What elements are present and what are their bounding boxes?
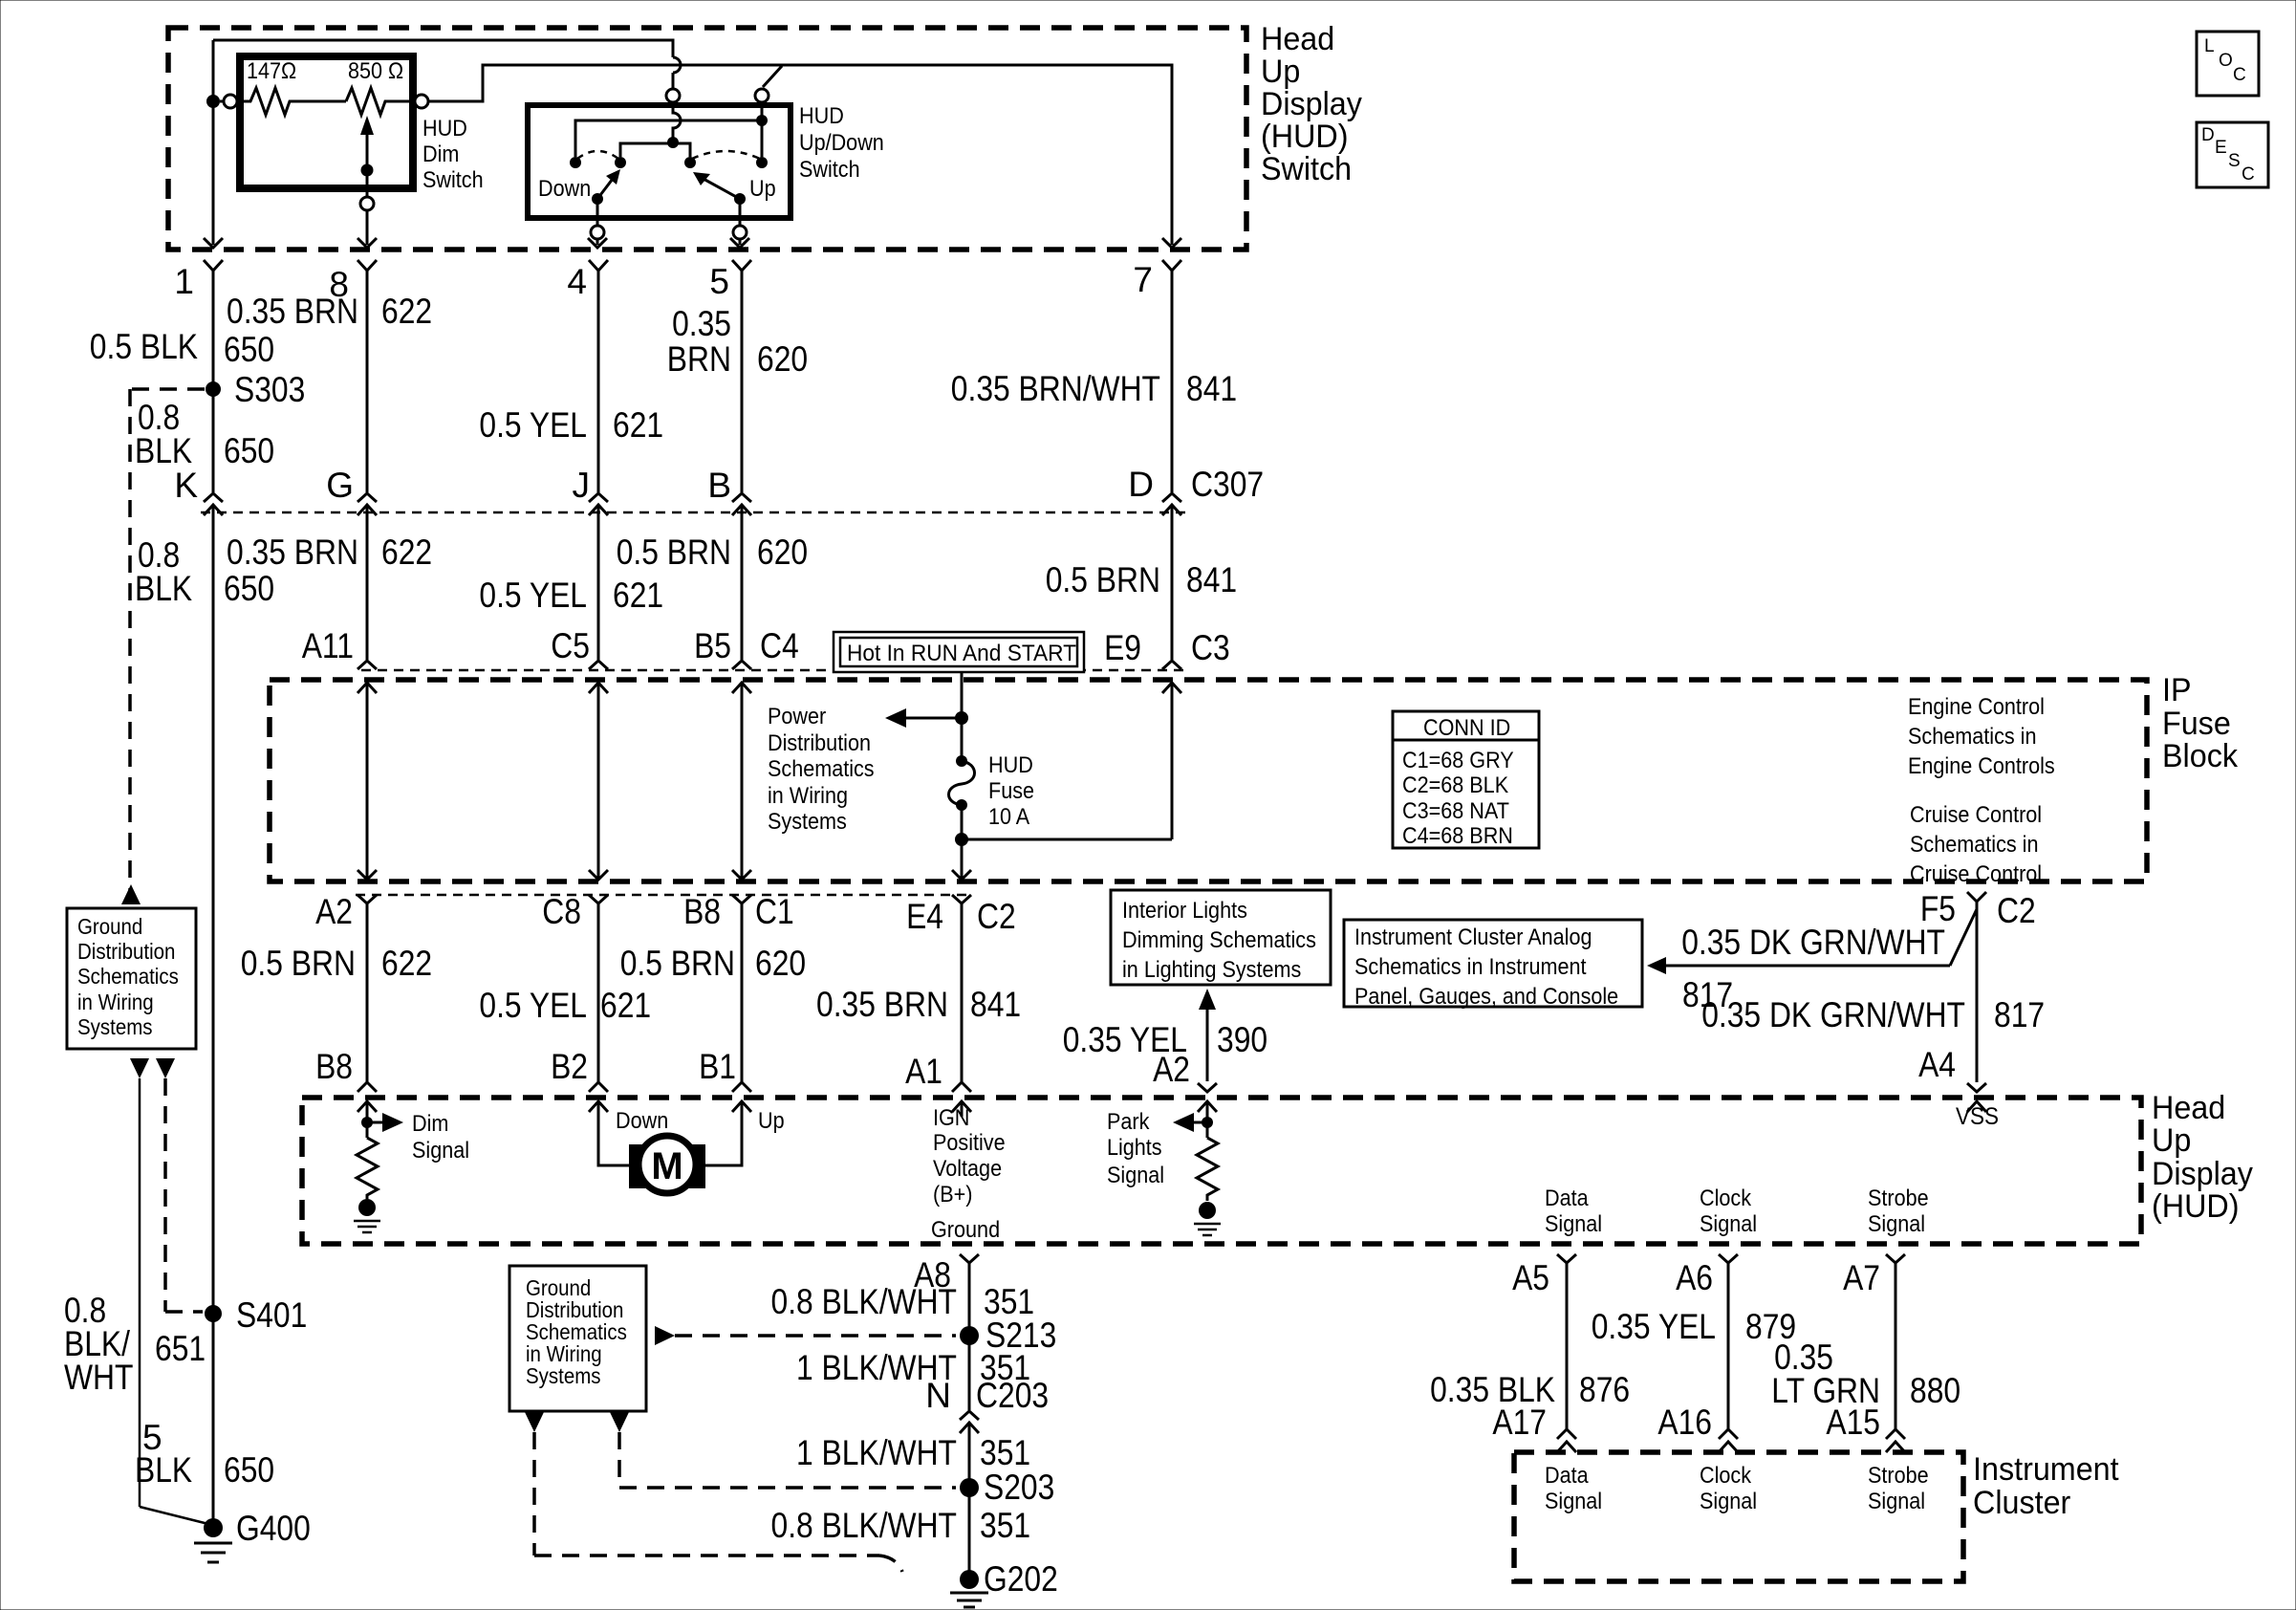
svg-text:Switch: Switch bbox=[422, 167, 484, 193]
svg-text:Instrument Cluster Analog: Instrument Cluster Analog bbox=[1354, 925, 1592, 950]
svg-text:650: 650 bbox=[224, 569, 274, 608]
svg-text:C3: C3 bbox=[1191, 628, 1230, 667]
svg-text:K: K bbox=[174, 466, 198, 505]
svg-text:C4: C4 bbox=[760, 626, 799, 665]
wire A: top wire from pin1 column to up/down switch bbox=[213, 40, 673, 57]
svg-text:Ground: Ground bbox=[931, 1217, 1000, 1243]
svg-text:B8: B8 bbox=[315, 1047, 353, 1086]
label Instrument Cluster bbox=[1973, 1451, 2119, 1521]
label 0.35 BRN 622 second bbox=[227, 533, 432, 572]
row3 wire end forks bbox=[357, 661, 1181, 669]
svg-text:Schematics: Schematics bbox=[77, 964, 179, 989]
label 5 BLK 650 bbox=[135, 1418, 274, 1490]
dim signal wire stub bbox=[366, 1101, 369, 1138]
park junction dot bbox=[1202, 1117, 1213, 1128]
label Cruise Control Schematics in Cruise Control bbox=[1910, 802, 2042, 887]
label 0.5 BRN 620 third bbox=[620, 944, 806, 983]
svg-text:0.5 YEL: 0.5 YEL bbox=[479, 576, 587, 615]
svg-text:850 Ω: 850 Ω bbox=[348, 58, 403, 84]
LOC box bbox=[2197, 32, 2259, 96]
svg-text:C2=68 BLK: C2=68 BLK bbox=[1402, 772, 1508, 798]
terminal circle pin4 bbox=[591, 226, 604, 239]
label 0.35 YEL 879 bbox=[1592, 1307, 1796, 1346]
wire A6 fork below HUD bbox=[1719, 1254, 1738, 1452]
svg-text:0.5 BLK: 0.5 BLK bbox=[90, 327, 198, 366]
wiper wire to terminal circle bbox=[366, 170, 369, 197]
label Strobe Signal hud bbox=[1868, 1186, 1929, 1237]
dashed contact arc up bbox=[692, 151, 760, 159]
terminal circle up-switch common bbox=[755, 89, 769, 102]
svg-text:Display: Display bbox=[2152, 1156, 2253, 1192]
svg-text:Signal: Signal bbox=[1545, 1489, 1602, 1514]
svg-text:622: 622 bbox=[381, 533, 432, 572]
arrow up into ground distribution box bbox=[121, 884, 141, 904]
wire A5 fork below HUD bbox=[1557, 1254, 1576, 1452]
resistor 147 ohm bbox=[240, 58, 346, 115]
svg-text:E: E bbox=[2215, 138, 2227, 158]
svg-text:in Wiring: in Wiring bbox=[768, 783, 848, 809]
svg-text:A5: A5 bbox=[1512, 1258, 1549, 1297]
svg-text:0.5 BRN: 0.5 BRN bbox=[617, 533, 731, 572]
svg-text:D: D bbox=[1128, 465, 1154, 504]
svg-text:Switch: Switch bbox=[1261, 151, 1352, 187]
label N C203 bbox=[925, 1376, 1049, 1415]
svg-text:C: C bbox=[2242, 164, 2255, 185]
svg-text:Panel, Gauges, and Console: Panel, Gauges, and Console bbox=[1354, 984, 1618, 1010]
svg-text:0.5 YEL: 0.5 YEL bbox=[479, 986, 587, 1025]
label 1 BLK/WHT 351 second bbox=[796, 1348, 1030, 1387]
svg-text:A4: A4 bbox=[1918, 1045, 1956, 1084]
wire 622 row4 to HUD bbox=[366, 903, 369, 1082]
arrows down from ground distribution box bbox=[130, 1058, 149, 1078]
potentiometer wiper arrow bbox=[360, 116, 374, 170]
label 0.5 YEL 621 second bbox=[479, 576, 663, 615]
svg-text:Up: Up bbox=[758, 1108, 785, 1134]
ground distribution box bottom bbox=[509, 1266, 646, 1411]
svg-text:Signal: Signal bbox=[1107, 1163, 1164, 1188]
label Head Up Display (HUD) Switch bbox=[1261, 21, 1362, 187]
svg-text:A15: A15 bbox=[1826, 1403, 1880, 1442]
wire down input to motor bbox=[598, 1101, 629, 1165]
svg-text:650: 650 bbox=[224, 1450, 274, 1490]
svg-text:0.35 BRN: 0.35 BRN bbox=[816, 985, 948, 1024]
terminal circle left of HUD dim switch bbox=[224, 95, 237, 108]
resistor 850 ohm bbox=[346, 58, 413, 115]
dashed ref line to G202 bbox=[534, 1432, 902, 1572]
svg-text:351: 351 bbox=[980, 1433, 1030, 1472]
label Data Signal ic bbox=[1545, 1463, 1602, 1514]
junction dot L2 center bbox=[667, 137, 679, 148]
contact dot up-right bbox=[756, 157, 768, 168]
pivot dot down bbox=[592, 193, 603, 205]
svg-text:1: 1 bbox=[174, 262, 194, 301]
ground dot dim bbox=[358, 1199, 376, 1216]
svg-text:Signal: Signal bbox=[1868, 1489, 1925, 1514]
row4 bottom fork glyphs bbox=[357, 1082, 971, 1092]
svg-text:O: O bbox=[2219, 51, 2233, 71]
label Park Lights Signal bbox=[1107, 1109, 1164, 1188]
label 0.8 BLK 650 bbox=[135, 398, 274, 470]
terminal circle below dim switch bbox=[360, 197, 374, 210]
svg-text:IP: IP bbox=[2162, 672, 2192, 708]
svg-text:Clock: Clock bbox=[1700, 1463, 1752, 1489]
svg-text:B1: B1 bbox=[699, 1047, 736, 1086]
svg-text:C2: C2 bbox=[977, 897, 1016, 936]
svg-text:L: L bbox=[2204, 36, 2215, 56]
wire: pin 1 vertical bbox=[212, 40, 215, 245]
splice S401 bbox=[205, 1295, 307, 1335]
label 0.8 BLK 650 second bbox=[135, 535, 274, 608]
svg-text:Cruise Control: Cruise Control bbox=[1910, 802, 2042, 828]
splice S203 bbox=[960, 1468, 1054, 1507]
label 0.8 BLK/WHT 351 fourth bbox=[771, 1506, 1031, 1545]
svg-text:HUD: HUD bbox=[422, 116, 467, 141]
connector F5 C2 fork bbox=[1967, 892, 1986, 902]
arrow fuse wire exits IP block bottom bbox=[952, 870, 971, 880]
svg-text:IGN: IGN bbox=[933, 1105, 969, 1131]
svg-text:Display: Display bbox=[1261, 86, 1362, 122]
svg-text:0.35 BRN/WHT: 0.35 BRN/WHT bbox=[951, 369, 1160, 408]
svg-text:S401: S401 bbox=[236, 1295, 307, 1335]
svg-text:622: 622 bbox=[381, 292, 432, 331]
Instrument Cluster dashed box bbox=[1514, 1452, 1963, 1581]
wire 621 below C307 bbox=[597, 505, 600, 660]
HUD Dim Switch box bbox=[240, 56, 413, 188]
svg-text:G: G bbox=[326, 466, 354, 505]
svg-text:A16: A16 bbox=[1657, 1403, 1712, 1442]
svg-text:BLK: BLK bbox=[135, 569, 192, 608]
svg-text:WHT: WHT bbox=[64, 1358, 134, 1397]
svg-text:Up/Down: Up/Down bbox=[799, 130, 884, 156]
wire 651 solid to G400 bbox=[140, 1078, 208, 1524]
splice S303 bbox=[206, 370, 305, 409]
label 0.5 BRN 620 second bbox=[617, 533, 808, 572]
svg-text:5: 5 bbox=[709, 262, 729, 301]
svg-text:Up: Up bbox=[1261, 54, 1300, 90]
svg-text:351: 351 bbox=[980, 1506, 1030, 1545]
contact dot down-right bbox=[615, 157, 626, 168]
svg-text:A11: A11 bbox=[302, 626, 354, 665]
arrows down from bottom ground box bbox=[525, 1412, 544, 1432]
junction dot power distribution tap bbox=[955, 711, 968, 725]
fuse HUD Fuse 10 A bbox=[949, 752, 1035, 830]
svg-text:621: 621 bbox=[600, 986, 651, 1025]
label 0.5 BRN 622 third bbox=[241, 944, 432, 983]
wire 622 through IP block bbox=[357, 683, 377, 880]
svg-text:F5: F5 bbox=[1920, 889, 1956, 928]
svg-text:Signal: Signal bbox=[412, 1138, 469, 1164]
pivot dot up bbox=[734, 193, 746, 205]
svg-text:Up: Up bbox=[2152, 1122, 2191, 1159]
svg-text:0.5 BRN: 0.5 BRN bbox=[1046, 560, 1160, 599]
svg-text:HUD: HUD bbox=[988, 752, 1033, 778]
svg-text:Voltage: Voltage bbox=[933, 1156, 1002, 1182]
label Data Signal hud bbox=[1545, 1186, 1602, 1237]
svg-text:E4: E4 bbox=[906, 897, 943, 936]
svg-text:C1=68 GRY: C1=68 GRY bbox=[1402, 748, 1514, 773]
svg-text:S: S bbox=[2228, 151, 2241, 171]
svg-text:390: 390 bbox=[1217, 1020, 1267, 1059]
Instrument Cluster Analog box bbox=[1344, 920, 1642, 1010]
svg-text:Head: Head bbox=[1261, 21, 1334, 57]
junction dot fuse output bbox=[955, 833, 968, 846]
svg-text:0.5 YEL: 0.5 YEL bbox=[479, 405, 587, 445]
wire 841 row4 to HUD bbox=[961, 903, 964, 1082]
svg-text:G400: G400 bbox=[236, 1509, 311, 1548]
wire L1 left contact drop bbox=[574, 120, 577, 157]
svg-text:(B+): (B+) bbox=[933, 1182, 972, 1207]
svg-text:0.35 BRN: 0.35 BRN bbox=[227, 292, 358, 331]
svg-text:Schematics in Instrument: Schematics in Instrument bbox=[1354, 954, 1587, 980]
svg-text:C3=68 NAT: C3=68 NAT bbox=[1402, 798, 1509, 824]
label Dim Signal bbox=[412, 1111, 469, 1164]
ground symbol dim bbox=[354, 1221, 380, 1232]
svg-text:Hot In RUN And START: Hot In RUN And START bbox=[847, 641, 1076, 666]
arrows at HUD switch bottom border bbox=[204, 238, 1181, 248]
svg-text:Systems: Systems bbox=[77, 1014, 153, 1039]
svg-text:S303: S303 bbox=[234, 370, 305, 409]
ground G202 bbox=[960, 1559, 1058, 1599]
svg-text:0.8 BLK/WHT: 0.8 BLK/WHT bbox=[771, 1506, 958, 1545]
svg-text:620: 620 bbox=[757, 533, 808, 572]
svg-text:A7: A7 bbox=[1843, 1258, 1880, 1297]
svg-text:Strobe: Strobe bbox=[1868, 1463, 1929, 1489]
svg-text:Engine Control: Engine Control bbox=[1908, 694, 2045, 720]
wire hop over wire B bbox=[673, 57, 681, 73]
svg-text:Cruise Control: Cruise Control bbox=[1910, 861, 2042, 887]
motor M bbox=[629, 1136, 705, 1193]
svg-text:Positive: Positive bbox=[933, 1130, 1006, 1156]
wire 817 from F5 to instrument cluster analog box bbox=[1647, 909, 1977, 974]
arrow to power distribution schematics bbox=[885, 708, 962, 728]
svg-text:0.5 BRN: 0.5 BRN bbox=[241, 944, 356, 983]
park wire fork at HUD top bbox=[1198, 1083, 1217, 1092]
svg-text:Signal: Signal bbox=[1545, 1211, 1602, 1237]
svg-text:817: 817 bbox=[1994, 995, 2045, 1034]
svg-text:Signal: Signal bbox=[1700, 1211, 1757, 1237]
dashed ref line from S303 to ground distribution bbox=[130, 389, 205, 902]
IGN wire stub bbox=[961, 1101, 964, 1117]
svg-text:841: 841 bbox=[1186, 369, 1237, 408]
wire 841 below C307 bbox=[1171, 505, 1174, 660]
CONN ID table bbox=[1393, 711, 1539, 849]
svg-text:Distribution: Distribution bbox=[77, 939, 175, 964]
svg-text:Interior Lights: Interior Lights bbox=[1122, 898, 1247, 924]
svg-text:Dim: Dim bbox=[422, 141, 459, 167]
svg-text:620: 620 bbox=[757, 339, 808, 379]
wire pin 4 stub bbox=[596, 199, 599, 245]
wire 390 up arrow to interior lights box bbox=[1199, 989, 1216, 1081]
svg-text:Cluster: Cluster bbox=[1973, 1485, 2070, 1521]
svg-text:(HUD): (HUD) bbox=[1261, 119, 1349, 155]
wire 650 below C307 bbox=[212, 505, 215, 1528]
svg-text:C5: C5 bbox=[551, 626, 590, 665]
contact dot up-left bbox=[684, 157, 696, 168]
wire L2 horizontal bbox=[620, 143, 690, 157]
dim signal arrow right bbox=[367, 1113, 403, 1132]
svg-text:E9: E9 bbox=[1104, 628, 1141, 667]
label Clock Signal ic bbox=[1700, 1463, 1757, 1514]
wire 620 below C307 bbox=[741, 505, 744, 660]
svg-text:Schematics in: Schematics in bbox=[1908, 724, 2037, 750]
wire 621 through IP block bbox=[589, 683, 608, 880]
svg-text:in Wiring: in Wiring bbox=[77, 990, 154, 1014]
wire 622 below C307 bbox=[366, 505, 369, 660]
label 0.8 BLK/ WHT bbox=[64, 1291, 134, 1397]
resistor dim signal bbox=[357, 1138, 378, 1199]
svg-text:841: 841 bbox=[1186, 560, 1237, 599]
svg-text:HUD: HUD bbox=[799, 103, 844, 129]
svg-text:1 BLK/WHT: 1 BLK/WHT bbox=[796, 1433, 957, 1472]
svg-text:650: 650 bbox=[224, 431, 274, 470]
wire up-common vertical bbox=[761, 102, 764, 157]
svg-text:Systems: Systems bbox=[768, 809, 847, 835]
svg-text:S203: S203 bbox=[984, 1468, 1054, 1507]
label 0.35 YEL 390 bbox=[1063, 1020, 1267, 1059]
svg-text:A2: A2 bbox=[315, 892, 353, 931]
svg-text:0.5 BRN: 0.5 BRN bbox=[620, 944, 735, 983]
svg-text:Head: Head bbox=[2152, 1090, 2225, 1126]
Interior Lights Dimming box bbox=[1111, 890, 1331, 985]
switch arm up bbox=[693, 172, 740, 199]
connector C307 thin dashed line bbox=[201, 511, 1185, 514]
Head Up Display (HUD) Switch dashed box bbox=[168, 28, 1246, 250]
wire down-common vertical with hop bbox=[673, 102, 681, 142]
svg-text:10 A: 10 A bbox=[988, 804, 1029, 830]
svg-text:147Ω: 147Ω bbox=[247, 58, 296, 84]
svg-text:A2: A2 bbox=[1153, 1050, 1190, 1089]
svg-text:0.35: 0.35 bbox=[672, 304, 731, 343]
pin forks row 1 bbox=[204, 260, 1181, 271]
arrow right from ground box to S213 bbox=[655, 1326, 675, 1345]
wire 621 J segment bbox=[597, 271, 600, 492]
svg-text:876: 876 bbox=[1579, 1370, 1630, 1409]
Hot In RUN And START box bbox=[834, 632, 1084, 672]
label 0.5 YEL 621 third bbox=[479, 986, 651, 1025]
svg-text:622: 622 bbox=[381, 944, 432, 983]
label Engine Control Schematics in Engine Controls bbox=[1908, 694, 2055, 779]
svg-text:N: N bbox=[925, 1376, 951, 1415]
wire 620 B segment bbox=[741, 271, 744, 492]
svg-text:D: D bbox=[2201, 125, 2215, 145]
svg-text:Schematics: Schematics bbox=[768, 756, 875, 782]
svg-text:in Lighting Systems: in Lighting Systems bbox=[1122, 957, 1301, 983]
svg-text:B8: B8 bbox=[683, 892, 721, 931]
svg-text:C1: C1 bbox=[755, 892, 794, 931]
svg-text:J: J bbox=[573, 466, 591, 505]
dim signal junction dot bbox=[361, 1117, 373, 1128]
svg-text:BRN: BRN bbox=[667, 339, 731, 379]
row4 thin dashed line bbox=[356, 894, 973, 897]
wire 621 row4 to HUD bbox=[597, 903, 600, 1082]
wire 817 VSS column bbox=[1976, 902, 1979, 1082]
wire 620 row4 to HUD bbox=[741, 903, 744, 1082]
label 0.35 BRN stacked bbox=[667, 304, 731, 379]
label 0.5 BRN 841 second bbox=[1046, 560, 1237, 599]
svg-text:CONN ID: CONN ID bbox=[1423, 715, 1510, 741]
svg-text:VSS: VSS bbox=[1956, 1103, 1999, 1130]
label 0.35 BRN 841 third bbox=[816, 985, 1021, 1024]
svg-text:Up: Up bbox=[749, 176, 776, 202]
svg-text:880: 880 bbox=[1910, 1371, 1960, 1410]
svg-text:Dimming Schematics: Dimming Schematics bbox=[1122, 927, 1316, 953]
svg-text:Lights: Lights bbox=[1107, 1135, 1162, 1161]
Head Up Display (HUD) dashed box bbox=[302, 1098, 2141, 1244]
svg-text:A1: A1 bbox=[905, 1052, 942, 1091]
ground symbol G400 bbox=[194, 1543, 232, 1562]
svg-text:Data: Data bbox=[1545, 1463, 1589, 1489]
svg-text:4: 4 bbox=[567, 262, 587, 301]
wire fuse output down bbox=[961, 805, 964, 880]
svg-text:BLK: BLK bbox=[135, 431, 192, 470]
wire from Hot box down to fuse bbox=[961, 672, 964, 761]
wire B: dim switch output to pin 7 column bbox=[428, 65, 1172, 245]
wire 841 into IP block bbox=[1162, 683, 1181, 839]
wire 841 D segment bbox=[1171, 271, 1174, 492]
svg-text:Signal: Signal bbox=[1700, 1489, 1757, 1514]
svg-text:A6: A6 bbox=[1676, 1258, 1713, 1297]
svg-text:Engine Controls: Engine Controls bbox=[1908, 753, 2055, 779]
svg-text:0.35 DK GRN/WHT: 0.35 DK GRN/WHT bbox=[1701, 995, 1965, 1034]
svg-text:621: 621 bbox=[613, 405, 663, 445]
svg-text:B2: B2 bbox=[551, 1047, 588, 1086]
svg-text:Signal: Signal bbox=[1868, 1211, 1925, 1237]
label 1 BLK/WHT 351 third bbox=[796, 1433, 1030, 1472]
svg-text:G202: G202 bbox=[984, 1559, 1058, 1599]
svg-text:C203: C203 bbox=[976, 1376, 1049, 1415]
label 0.35 LT GRN 880 bbox=[1771, 1338, 1960, 1410]
svg-text:Strobe: Strobe bbox=[1868, 1186, 1929, 1211]
label IP Fuse Block bbox=[2162, 672, 2239, 774]
wire A lower stub to common terminal circle bbox=[672, 73, 675, 89]
wire 650 K segment bbox=[212, 271, 215, 492]
svg-text:Power: Power bbox=[768, 704, 826, 729]
svg-text:621: 621 bbox=[613, 576, 663, 615]
arrows entering HUD box top bbox=[357, 1101, 1986, 1112]
wire 620 through IP block bbox=[732, 683, 751, 880]
wire pin 8 stub bbox=[366, 210, 369, 245]
svg-text:Down: Down bbox=[616, 1108, 668, 1134]
terminal circle right of dim switch bbox=[415, 95, 428, 108]
svg-text:Data: Data bbox=[1545, 1186, 1589, 1211]
switch arm down bbox=[597, 169, 620, 199]
svg-text:Instrument: Instrument bbox=[1973, 1451, 2119, 1488]
svg-text:Systems: Systems bbox=[526, 1363, 601, 1388]
svg-text:Switch: Switch bbox=[799, 157, 860, 183]
IP Fuse Block dashed box bbox=[270, 680, 2147, 881]
svg-text:C2: C2 bbox=[1997, 891, 2036, 930]
svg-text:Park: Park bbox=[1107, 1109, 1150, 1135]
resistor park lights bbox=[1197, 1138, 1218, 1201]
label 0.8 BLK/WHT 351 first bbox=[771, 1282, 1035, 1321]
label HUD Dim Switch bbox=[422, 116, 484, 193]
wire L1 horizontal bbox=[575, 120, 762, 156]
svg-text:0.35 BRN: 0.35 BRN bbox=[227, 533, 358, 572]
DESC box bbox=[2197, 122, 2268, 187]
connector C307 glyphs bbox=[204, 493, 1181, 515]
row3 thin dashed line bbox=[361, 669, 1185, 672]
ground dot park bbox=[1199, 1202, 1216, 1219]
svg-text:C: C bbox=[2233, 65, 2246, 85]
svg-text:Schematics in: Schematics in bbox=[1910, 832, 2039, 858]
wiper junction dot bbox=[361, 164, 374, 177]
svg-text:C8: C8 bbox=[542, 892, 581, 931]
contact dot down-left bbox=[570, 157, 581, 168]
park arrow left bbox=[1173, 1113, 1207, 1132]
wire A8 fork below HUD bbox=[960, 1254, 979, 1410]
svg-text:Distribution: Distribution bbox=[768, 730, 871, 756]
connector C203 bbox=[960, 1411, 979, 1579]
